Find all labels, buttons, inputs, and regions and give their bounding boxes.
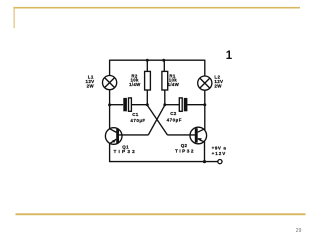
wire Q1 emitter lead [109,143,111,162]
svg-text:2W: 2W [87,84,95,89]
node R2 top junction [146,59,149,62]
svg-text:1/4W: 1/4W [129,82,141,87]
svg-text:+12V: +12V [212,151,227,156]
wire C2 left lead [165,104,179,106]
node Q2 emitter junction [203,160,206,163]
label R2 value [129,73,141,87]
svg-text:470µF: 470µF [167,117,182,122]
wire Q1 base lead [118,134,148,136]
wire C1 left lead [110,104,124,106]
wire L2 top lead [204,60,206,76]
label supply voltage [212,145,227,156]
svg-text:TIP32: TIP32 [175,148,195,153]
svg-text:2W: 2W [214,84,222,89]
wire L2 bottom lead [204,90,206,105]
lamp L2 [198,76,212,90]
transistor Q2 [190,127,207,144]
svg-text:Q2: Q2 [181,143,188,148]
svg-text:29: 29 [296,228,302,234]
wire C2 right lead [187,104,205,106]
wire L2-Q2 collector lead [204,105,206,130]
svg-text:TIP32: TIP32 [113,149,137,154]
svg-text:C1: C1 [132,112,139,117]
svg-text:1: 1 [226,50,233,62]
label L2 value [214,74,223,88]
node L2-C2 junction [203,103,206,106]
wire R1 top stub [163,60,165,71]
node L1-C1 junction [108,103,111,106]
wire Q2 base lead [167,134,195,136]
node C1-R2 junction [146,103,149,106]
svg-text:+9V a: +9V a [212,145,227,150]
wire L1 top lead [109,60,111,76]
node R1 top junction [162,59,165,62]
label C2 value [167,111,182,122]
capacitor C1 [123,98,131,111]
svg-text:C2: C2 [170,111,177,116]
wire R2 bottom stub [146,90,148,105]
svg-text:470µF: 470µF [130,118,145,123]
label Q1 type [113,144,137,154]
node R1-C2 junction [163,103,166,106]
capacitor C2 [179,98,187,111]
wire bottom rail [110,161,218,163]
lamp L1 [103,76,117,90]
wire Q2 emitter lead [204,141,206,162]
label C1 value [130,112,145,123]
transistor Q1 [105,128,122,145]
wire L1-Q1 collector lead [109,105,111,130]
wire C1 right lead [131,104,147,106]
wire L1 bottom lead [109,90,111,105]
wire R2 top stub [146,60,148,71]
label R1 value [168,73,180,87]
label L1 value [86,75,95,89]
resistor R1 [162,71,168,90]
wire cross-coupling C1 to Q2 base [147,105,167,135]
wire cross-coupling C2 to Q1 base [148,105,165,135]
label Q2 type [175,143,195,153]
resistor R2 [145,71,151,90]
wire top rail [110,59,205,61]
terminal +V supply [218,160,222,164]
svg-text:1/4W: 1/4W [168,82,180,87]
wire R1 bottom stub [164,90,166,105]
